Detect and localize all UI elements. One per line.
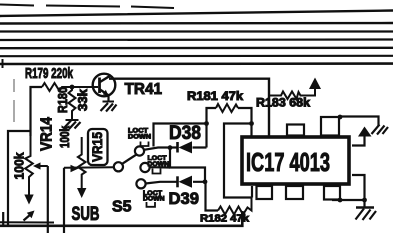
- power arrow (IC17 right): [358, 127, 372, 137]
- svg-text:R180: R180: [55, 87, 70, 113]
- wire IC17 top pin 2 to ground: [340, 117, 379, 127]
- wire bus line 6: [0, 47, 393, 50]
- wire bottom bus upper segment: [0, 221, 54, 223]
- node (bottom pin 3): [338, 198, 343, 203]
- wire bus line 3: [0, 22, 393, 25]
- svg-text:D38: D38: [169, 122, 201, 144]
- pin (IC17 bottom pin 3): [324, 186, 340, 200]
- potentiometer VR14: [8, 117, 56, 233]
- node (R181 right): [249, 121, 254, 126]
- diode D38: [144, 122, 207, 153]
- svg-text:D39: D39: [169, 189, 200, 208]
- wire bottom bus: [0, 211, 242, 226]
- svg-text:SUB: SUB: [72, 204, 100, 225]
- pin (IC17 bottom pin 2): [286, 186, 303, 199]
- svg-text:100k: 100k: [12, 152, 27, 180]
- label LOCT DOWN block 1: [128, 128, 152, 147]
- node (D38 anode side): [168, 145, 173, 150]
- diode D39: [146, 176, 206, 208]
- svg-text:33k: 33k: [75, 88, 90, 111]
- wire bus line 2: [0, 11, 393, 17]
- power arrow (R183): [309, 78, 321, 90]
- node (IC17 top pin 2): [338, 115, 343, 120]
- wire D38 loop: [154, 124, 207, 147]
- switch S5: [64, 146, 150, 215]
- ground (TR41 emitter): [103, 101, 115, 103]
- wire contact C to bypass: [150, 166, 171, 169]
- wire bus line 5: [0, 38, 393, 41]
- svg-text:DOWN: DOWN: [128, 134, 152, 141]
- node (D39 out): [203, 179, 208, 184]
- svg-text:DOWN: DOWN: [148, 161, 170, 168]
- IC U17 IC17 4013 body: [242, 137, 349, 184]
- wire IC17 right to power: [352, 137, 365, 146]
- resistor R182: [200, 198, 252, 225]
- wire bus line 7: [0, 55, 393, 58]
- resistor R180: [55, 87, 90, 120]
- svg-text:S5: S5: [112, 199, 132, 216]
- svg-text:VR14: VR14: [39, 117, 56, 151]
- svg-text:R179 220k: R179 220k: [25, 65, 73, 82]
- wire bus line 8: [0, 62, 393, 65]
- resistor R183: [256, 89, 315, 110]
- wire bus line 4: [0, 30, 393, 32]
- resistor R179: [25, 65, 98, 136]
- wire left edge top tick: [2, 59, 4, 68]
- node (R181 left): [204, 121, 209, 126]
- svg-text:VR15: VR15: [89, 132, 105, 162]
- label LOCT DOWN block 3: [143, 190, 165, 207]
- label LOCT DOWN block 2: [148, 155, 170, 174]
- wire IC17 right to ground: [352, 175, 365, 208]
- pin (IC17 bottom pin 1): [257, 186, 273, 199]
- wire fold dashes: [13, 79, 15, 122]
- potentiometer VR15: [58, 126, 108, 233]
- svg-text:100k: 100k: [58, 126, 72, 148]
- pin (IC17 top pin 2): [321, 117, 339, 136]
- ground (top right): [372, 125, 389, 135]
- svg-text:IC17 4013: IC17 4013: [246, 147, 330, 177]
- node (right rail): [362, 198, 367, 203]
- svg-text:R183 68k: R183 68k: [256, 98, 311, 110]
- wire bypass L: [170, 148, 205, 182]
- ground (bottom right): [356, 208, 377, 221]
- svg-text:DOWN: DOWN: [143, 196, 165, 203]
- svg-text:TR41: TR41: [125, 81, 163, 98]
- node A junction: [70, 85, 75, 90]
- ground (R180): [66, 119, 79, 121]
- wire bus line 1: [0, 5, 174, 9]
- wire bottom rail: [332, 199, 365, 201]
- resistor R181: [187, 91, 252, 198]
- arrow (bottom left): [24, 211, 35, 221]
- wire TR41 collector run: [109, 79, 269, 136]
- transistor TR41: [93, 74, 162, 102]
- svg-text:R181 47k: R181 47k: [187, 91, 244, 103]
- wire left edge tick: [2, 212, 4, 225]
- pin (IC17 top pin 1): [287, 125, 304, 136]
- wire D39 to R182: [206, 182, 219, 211]
